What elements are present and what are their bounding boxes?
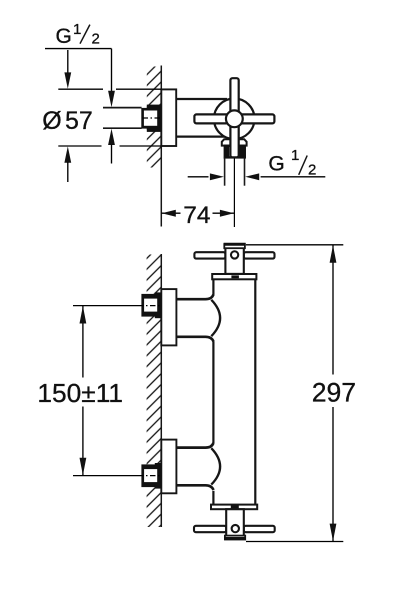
bottom handle cap xyxy=(225,536,245,540)
label G 1/2 (right of outlet) xyxy=(268,147,316,179)
body bottom cap xyxy=(211,505,257,510)
inlet pipe (top view) xyxy=(103,107,142,109)
wall hatching (top view) xyxy=(147,67,162,168)
bottom union bell xyxy=(211,448,220,484)
G1/2 right: right arrow + tail xyxy=(245,173,259,180)
bottom handle left arm (front view) xyxy=(194,526,226,532)
svg-text:1: 1 xyxy=(73,21,81,38)
outlet nut xyxy=(225,146,245,158)
top union pipe (front view) xyxy=(176,295,213,300)
svg-text:G: G xyxy=(56,25,72,48)
svg-text:2: 2 xyxy=(92,30,100,47)
union nut (top view) xyxy=(141,108,161,129)
outlet pipe xyxy=(224,158,226,186)
G1/2 right: left arrow xyxy=(188,176,209,178)
handle hub xyxy=(226,110,243,127)
bottom union nut (front view) xyxy=(141,464,161,487)
top handle left arm (front view) xyxy=(194,252,225,258)
mixer body right edge xyxy=(254,279,256,504)
top handle right arm (front view) xyxy=(244,252,275,258)
bottom escutcheon (front view) xyxy=(161,440,176,494)
wall face line (front view) xyxy=(160,254,162,527)
svg-text:74: 74 xyxy=(183,202,210,229)
text Ø57 xyxy=(42,107,93,135)
outlet centerline / 74 extension xyxy=(233,158,235,227)
150 dim extension line (bottom, with centerline through nut) xyxy=(73,475,138,477)
top union nut (front view) xyxy=(141,294,161,317)
svg-text:G: G xyxy=(268,153,284,176)
74 dimension xyxy=(161,212,180,214)
297 extension line top xyxy=(246,244,343,246)
bottom handle screw circle xyxy=(232,525,239,532)
svg-text:297: 297 xyxy=(312,378,356,408)
top handle block xyxy=(225,246,243,274)
top handle cap xyxy=(224,244,245,248)
label G 1/2 (top-left) xyxy=(56,21,100,48)
bottom handle block xyxy=(226,509,244,537)
Ø57 lower arrow xyxy=(64,146,71,162)
mixer body left edge xyxy=(212,279,214,295)
297 extension line bottom xyxy=(246,541,343,543)
leader underline G1/2 top xyxy=(45,48,112,50)
svg-text:57: 57 xyxy=(65,107,93,135)
Ø57 dimension extension lines xyxy=(58,88,103,90)
cross handle horizontal bar (top view) xyxy=(194,114,274,123)
Ø57 upper arrow xyxy=(67,50,69,73)
top escutcheon (front view) xyxy=(161,289,176,345)
bottom handle right arm (front view) xyxy=(244,526,275,532)
nut centerline (top view) xyxy=(143,117,161,119)
cross handle vertical bar (top view) xyxy=(230,78,238,157)
valve body (top view) xyxy=(176,98,227,100)
leader line down to pipe xyxy=(111,49,113,92)
top union bell xyxy=(211,300,220,336)
150 dim extension line (top, with centerline through nut) xyxy=(73,305,138,307)
150 dimension line + arrows xyxy=(82,306,84,378)
escutcheon flange (top view) xyxy=(161,89,176,146)
outlet collar xyxy=(222,139,247,145)
wall hatching (front view) xyxy=(147,255,162,528)
svg-text:1: 1 xyxy=(291,147,299,164)
297 dimension line + arrows xyxy=(332,245,334,374)
bottom union pipe (front view) xyxy=(176,443,213,448)
wall face line (top view) xyxy=(160,66,162,227)
top handle screw circle xyxy=(231,251,238,258)
pipe lower dim arrow (G1/2 top) xyxy=(108,129,115,145)
body top cap xyxy=(212,274,256,279)
svg-text:150±11: 150±11 xyxy=(37,378,123,408)
svg-text:2: 2 xyxy=(308,162,316,179)
valve head circle xyxy=(214,99,255,140)
svg-text:Ø: Ø xyxy=(42,107,61,135)
